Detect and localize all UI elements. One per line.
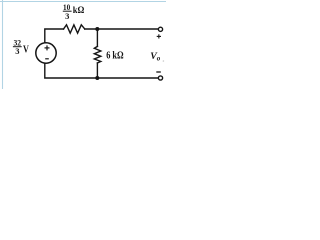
terminal a (open)	[158, 27, 162, 31]
junction node top	[95, 27, 99, 31]
resistor R (10/3 k) zigzag	[64, 25, 85, 33]
page rule left (pale blue)	[2, 0, 4, 89]
source plus sign	[45, 45, 50, 50]
terminal b (open)	[158, 76, 162, 80]
minus terminal mark	[156, 71, 161, 73]
page rule top (pale blue)	[0, 1, 166, 3]
svg-text:V: V	[23, 43, 29, 55]
wire: 6k resistor to bottom junction	[96, 63, 98, 78]
label 10/3 kOhm	[63, 2, 85, 21]
wire top: resistor to terminal a	[85, 28, 159, 30]
voltage source Vs circle	[36, 43, 56, 63]
svg-text:6 kΩ: 6 kΩ	[106, 50, 124, 62]
svg-text:kΩ: kΩ	[73, 5, 85, 16]
junction node bottom	[95, 76, 99, 80]
wire: top junction down to 6k resistor	[96, 29, 98, 46]
wire top-left: source top to resistor	[45, 29, 64, 43]
source minus sign	[45, 58, 49, 60]
plus terminal mark	[157, 34, 161, 38]
wire left-bottom: source bottom to bottom rail	[45, 63, 98, 78]
faint scan speck	[163, 60, 165, 62]
wire bottom: junction to terminal b	[97, 77, 158, 79]
label 32/3 V	[13, 38, 29, 57]
svg-text:3: 3	[65, 11, 69, 21]
svg-text:3: 3	[15, 46, 19, 56]
resistor 6k zigzag (vertical)	[94, 46, 101, 63]
